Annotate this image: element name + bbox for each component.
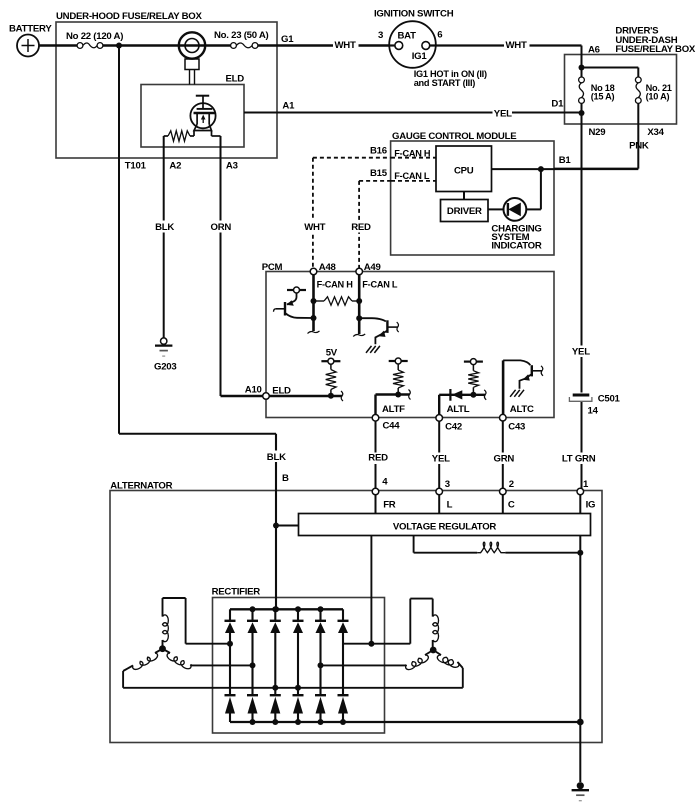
svg-text:ELD: ELD (226, 74, 245, 85)
svg-text:(15 A): (15 A) (591, 92, 615, 102)
svg-text:RED: RED (368, 453, 388, 464)
svg-text:YEL: YEL (494, 109, 512, 120)
svg-text:C: C (508, 499, 515, 510)
svg-text:UNDER-HOOD FUSE/RELAY BOX: UNDER-HOOD FUSE/RELAY BOX (56, 11, 203, 22)
svg-text:RED: RED (351, 222, 371, 233)
svg-text:C42: C42 (445, 422, 462, 433)
svg-text:6: 6 (437, 30, 442, 41)
svg-text:BATTERY: BATTERY (9, 24, 52, 35)
svg-text:A49: A49 (364, 262, 381, 273)
svg-text:IGNITION SWITCH: IGNITION SWITCH (374, 9, 454, 20)
svg-text:No 22 (120 A): No 22 (120 A) (66, 31, 123, 42)
svg-text:YEL: YEL (432, 454, 450, 465)
svg-text:CPU: CPU (454, 166, 474, 177)
svg-text:F-CAN L: F-CAN L (394, 171, 430, 181)
svg-text:ALTL: ALTL (447, 404, 470, 415)
svg-text:BAT: BAT (398, 31, 417, 42)
svg-text:T101: T101 (125, 161, 147, 172)
svg-text:ALTC: ALTC (510, 404, 534, 415)
svg-text:3: 3 (445, 479, 450, 490)
svg-text:B: B (282, 473, 289, 484)
svg-text:LT GRN: LT GRN (562, 454, 596, 465)
svg-text:G1: G1 (281, 34, 294, 45)
svg-text:ALTERNATOR: ALTERNATOR (110, 480, 172, 491)
svg-text:VOLTAGE REGULATOR: VOLTAGE REGULATOR (393, 522, 497, 533)
svg-text:PCM: PCM (262, 262, 283, 273)
svg-text:C43: C43 (508, 422, 525, 433)
svg-text:G203: G203 (154, 362, 176, 373)
svg-text:5V: 5V (326, 348, 338, 359)
svg-text:C501: C501 (598, 394, 621, 405)
svg-text:WHT: WHT (506, 40, 527, 51)
svg-text:ELD: ELD (272, 385, 291, 396)
svg-text:14: 14 (588, 406, 599, 417)
svg-text:A1: A1 (282, 101, 295, 112)
svg-text:RECTIFIER: RECTIFIER (212, 587, 261, 598)
svg-text:B16: B16 (370, 146, 387, 157)
svg-text:IG: IG (586, 499, 596, 510)
svg-text:ORN: ORN (211, 222, 232, 233)
svg-text:F-CAN H: F-CAN H (394, 149, 431, 159)
svg-text:BLK: BLK (267, 452, 286, 463)
svg-text:1: 1 (583, 479, 589, 490)
svg-text:A6: A6 (588, 45, 600, 56)
svg-text:A48: A48 (319, 262, 337, 273)
svg-text:B1: B1 (559, 155, 572, 166)
svg-text:L: L (447, 499, 453, 510)
svg-text:A3: A3 (226, 161, 238, 172)
svg-text:3: 3 (378, 30, 383, 41)
svg-text:BLK: BLK (155, 222, 174, 233)
svg-text:D1: D1 (551, 99, 564, 110)
svg-text:WHT: WHT (304, 222, 325, 233)
svg-text:DRIVER: DRIVER (447, 206, 482, 217)
svg-text:IG1: IG1 (412, 51, 428, 62)
svg-text:F-CAN H: F-CAN H (317, 280, 354, 290)
svg-text:GAUGE CONTROL MODULE: GAUGE CONTROL MODULE (392, 131, 517, 142)
svg-text:GRN: GRN (494, 454, 515, 465)
svg-text:F-CAN L: F-CAN L (362, 280, 398, 290)
svg-text:A2: A2 (169, 161, 181, 172)
svg-text:ALTF: ALTF (382, 404, 405, 415)
svg-text:INDICATOR: INDICATOR (491, 241, 541, 252)
svg-text:YEL: YEL (572, 346, 590, 357)
svg-text:B15: B15 (370, 168, 388, 179)
svg-text:PNK: PNK (629, 141, 649, 152)
svg-text:(10 A): (10 A) (646, 92, 670, 102)
svg-text:and START (III): and START (III) (414, 78, 476, 88)
svg-text:2: 2 (509, 479, 514, 490)
svg-text:4: 4 (382, 477, 388, 488)
svg-text:C44: C44 (383, 421, 401, 432)
svg-text:A10: A10 (245, 385, 262, 396)
svg-text:N29: N29 (589, 127, 606, 138)
svg-text:FUSE/RELAY BOX: FUSE/RELAY BOX (615, 44, 696, 55)
svg-text:No. 23 (50 A): No. 23 (50 A) (214, 30, 269, 41)
svg-text:WHT: WHT (335, 40, 356, 51)
svg-text:X34: X34 (647, 127, 664, 138)
svg-text:FR: FR (383, 499, 396, 510)
